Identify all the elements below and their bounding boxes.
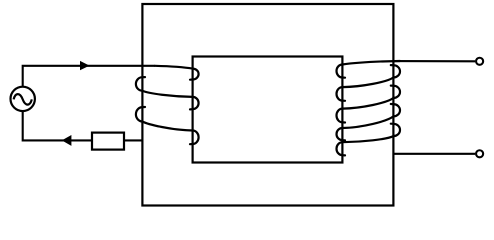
wire bottom-left from source to resistor bbox=[23, 111, 92, 141]
wire secondary bottom to terminal bbox=[393, 153, 475, 155]
wire top-left from source to primary bbox=[23, 66, 155, 87]
resistor R (load) bbox=[92, 133, 124, 150]
wire secondary top to terminal bbox=[393, 60, 475, 62]
secondary winding turn 2 (right bump SR1, strand, left bump SL2) bbox=[337, 65, 400, 101]
transformer core outer rectangle bbox=[142, 4, 393, 206]
primary winding turn 3 (left bump L2, strand, right bump R3) bbox=[136, 107, 199, 144]
secondary winding turn 4 (right bump SR3, strand, left bump SL4) bbox=[337, 104, 400, 140]
secondary winding turn 3 (right bump SR2, strand, left bump SL3) bbox=[337, 86, 400, 123]
output terminal bottom bbox=[476, 150, 483, 157]
output terminal top bbox=[476, 58, 483, 65]
current arrow top (pointing right) bbox=[80, 61, 90, 70]
secondary winding turn 5 (right bump SR4, strand, left bump SL5) bbox=[337, 124, 400, 156]
secondary winding turn 1 (entry strand + left bump SL1) bbox=[337, 61, 401, 78]
transformer core inner window rectangle bbox=[193, 57, 343, 163]
AC source V1 bbox=[11, 87, 35, 111]
primary winding turn 1 (entry + right bump R1) bbox=[155, 66, 199, 80]
primary winding turn 2 (left bump L1, strand, right bump R2) bbox=[136, 77, 199, 109]
current arrow bottom (pointing left) bbox=[62, 135, 72, 146]
wire resistor to core bbox=[124, 139, 142, 141]
